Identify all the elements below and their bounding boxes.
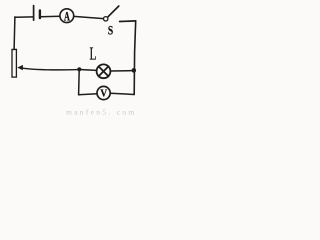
- lamp L cross: [99, 66, 109, 76]
- rheostat slider arrow head: [17, 65, 23, 70]
- wire right vertical: [134, 21, 136, 95]
- wire lamp to right node: [111, 70, 134, 72]
- ammeter U1 circle: [60, 9, 74, 23]
- node right junction dot: [132, 68, 137, 73]
- wire left vertical: [13, 17, 16, 50]
- wire top-left horizontal: [15, 16, 34, 18]
- svg-text:V: V: [100, 88, 107, 100]
- rheostat R1 body: [12, 49, 16, 77]
- svg-text:A: A: [64, 9, 70, 23]
- lamp L circle: [97, 64, 111, 78]
- wire voltmeter to bottom-right corner: [110, 93, 134, 94]
- wire voltmeter branch bottom-left horizontal: [79, 94, 98, 95]
- svg-text:S: S: [108, 24, 113, 38]
- voltmeter U2 circle: [97, 86, 110, 99]
- wire switch to top-right corner: [120, 20, 136, 23]
- switch S pivot circle: [104, 17, 108, 21]
- battery long plate: [33, 6, 35, 21]
- svg-text:L: L: [89, 45, 96, 64]
- svg-text:manfen5. com: manfen5. com: [66, 108, 137, 117]
- node left junction dot: [77, 67, 81, 71]
- wire node to lamp: [79, 69, 96, 72]
- wire voltmeter branch left vertical: [78, 69, 81, 94]
- rheostat slider arrow shaft / wire: [22, 68, 80, 70]
- switch S blade: [108, 6, 119, 17]
- wire ammeter to switch: [74, 16, 104, 18]
- battery short plate: [39, 11, 41, 19]
- wire battery to ammeter: [41, 15, 60, 17]
